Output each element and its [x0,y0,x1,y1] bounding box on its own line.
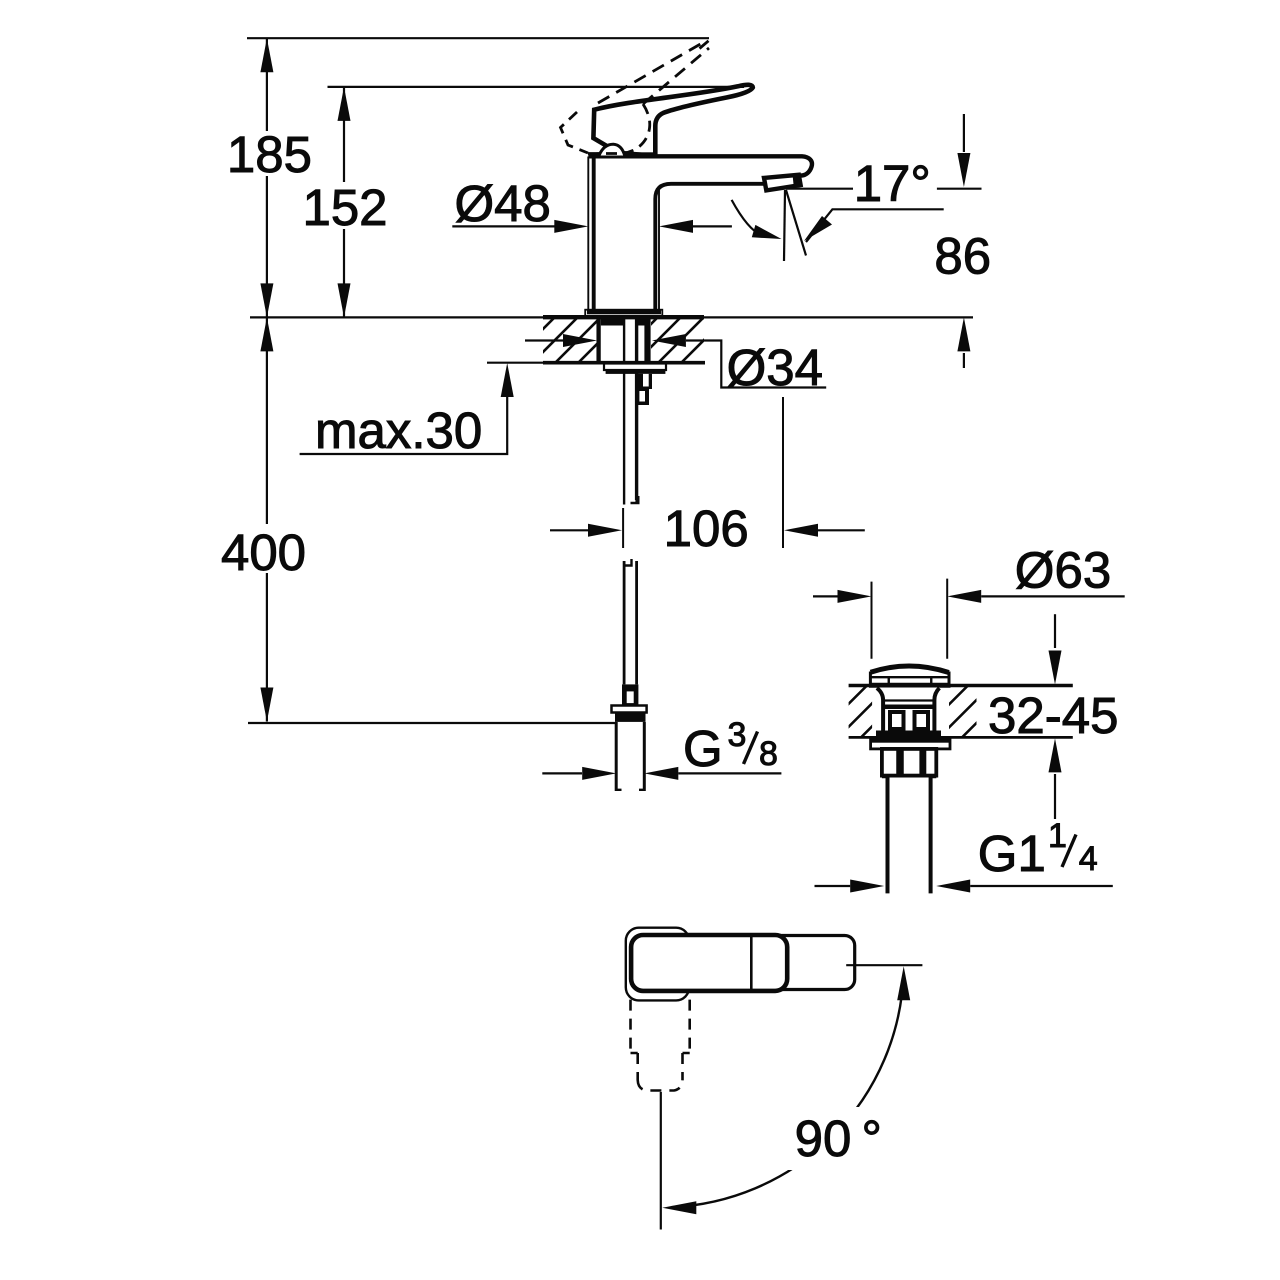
cartridge bottom bands inside shank [601,318,623,326]
drain deck bottom line [849,736,1073,739]
pop-up waste lock nut threaded section [882,749,936,776]
dimension Ø34 leader [686,341,826,388]
svg-text:400: 400 [221,524,306,581]
faucet body column right inner line and spout underside [655,184,763,310]
pop-up rod break upper [631,496,639,503]
dimension 17 degrees arc [732,200,762,236]
svg-text:Ø34: Ø34 [727,339,823,396]
plan view handle lever division line [750,936,753,990]
plan view center line [660,1092,662,1230]
plan view handle grip [770,936,855,990]
dimension 17 degrees leader right [806,209,944,242]
pop-up rod upper segment [624,318,637,505]
faucet body column left inner line [592,158,596,310]
dimension 106 extension line left [622,508,624,548]
svg-text:Ø63: Ø63 [1015,542,1111,599]
dimension Ø48 [452,225,556,227]
aerator outlet [764,175,801,191]
deck bottom edge thick [543,361,705,365]
rod connector block [622,684,638,705]
dimension 400 bottom reference line [248,722,616,724]
drain deck hatching left [815,686,913,738]
dimension Ø63 extension lines [872,579,948,659]
shank left wall [596,317,600,363]
svg-text:152: 152 [302,179,387,236]
raised handle dashed outline lower edge [643,48,709,104]
svg-text:1: 1 [1048,817,1067,855]
pop-up rod lower segment [624,561,637,684]
svg-text:90 °: 90 ° [795,1110,882,1167]
dimension max.30 leader [300,370,508,454]
dimension 86 top tick [937,188,982,190]
plan view leader line from grip [846,964,922,966]
plan view dashed body outline [631,1000,690,1052]
deck top edge thick [543,315,704,319]
plan view handle lever [631,935,787,991]
aerator right end shading [793,174,803,187]
dimension 86 top arrow [963,114,965,152]
svg-text:4: 4 [1079,840,1098,878]
dimension 86 bottom arrow [963,353,965,368]
supply connector nut [612,706,647,713]
dimension 17 degrees angle vertical line [784,190,785,261]
deck top line [250,316,973,318]
dimension G 3/8 [542,772,582,774]
svg-text:8: 8 [759,735,778,773]
dimension 32-45 bottom arrow [1054,774,1056,819]
raised handle dashed outline upper edge [598,42,704,103]
svg-text:17°: 17° [854,155,931,212]
dimension 152 reference line [328,86,745,88]
drain deck top line [849,684,1073,688]
faucet body column left outer line [587,157,589,310]
mounting nut [606,370,666,374]
svg-text:106: 106 [664,500,749,557]
svg-text:G1: G1 [978,825,1046,882]
dimension 17 degrees label leader [786,188,853,190]
pop-up waste cap [871,666,949,684]
handle base bottom band [597,152,655,157]
svg-text:G: G [683,720,723,777]
svg-text:86: 86 [934,227,991,284]
pop-up waste cap bottom edge [869,683,951,688]
shank right wall [644,317,650,363]
dimension 400 line [266,317,268,721]
faucet body column right outer line [658,186,660,310]
pop-up waste flange under deck [871,739,950,749]
pop-up rod break lower [624,559,632,566]
raised handle pivot dashed bottom [588,152,625,155]
dimension 106 extension line right [782,397,784,548]
dimension 185 top reference line [247,37,709,39]
drain deck hatching right [916,686,1014,738]
supply pipe [616,722,644,791]
dimension 17 degrees angle slanted line [786,190,806,256]
handle body front view [593,85,752,156]
svg-text:Ø48: Ø48 [455,175,551,232]
dimension 32-45 top arrow [1054,614,1056,648]
pop-up waste neck [877,688,940,736]
pop-up waste body bottom band [876,731,941,737]
faucet body top edge and spout tip [588,156,812,175]
dimension 185 line [266,38,268,317]
dimension Ø63 arrows [813,595,838,597]
dimension 106 right arrow [818,529,865,531]
faucet base plate [585,310,662,317]
pop-up rod clamp bracket [637,374,653,389]
dimension 106 left arrow [550,529,588,531]
mounting flange under deck [604,364,666,371]
pop-up waste overflow slots [890,712,904,729]
svg-text:32-45: 32-45 [988,687,1118,744]
raised handle tip solid tick [700,41,709,49]
handle pivot arc detail [599,144,625,155]
dimension Ø34 arrows at shank [525,339,563,341]
svg-text:max.30: max.30 [315,402,482,459]
supply pipe end ticks [616,789,644,791]
raised handle pivot dashed diamond [561,112,589,153]
plan view handle base square [626,928,689,1001]
dimension 90 degrees text [787,1107,886,1170]
pop-up waste tailpipe [888,777,931,893]
deck hatching right of shank [612,317,727,363]
pop-up waste step [882,776,936,779]
dimension 90 degrees arc [671,975,904,1207]
svg-text:3: 3 [728,716,747,754]
dimension 152 line [343,87,345,318]
deck hatching left of shank [509,317,624,363]
deck bottom line [487,362,545,364]
dimension G1 1/4 [815,885,851,887]
raised handle pivot dashed right edge [622,104,650,154]
svg-text:185: 185 [227,126,312,183]
